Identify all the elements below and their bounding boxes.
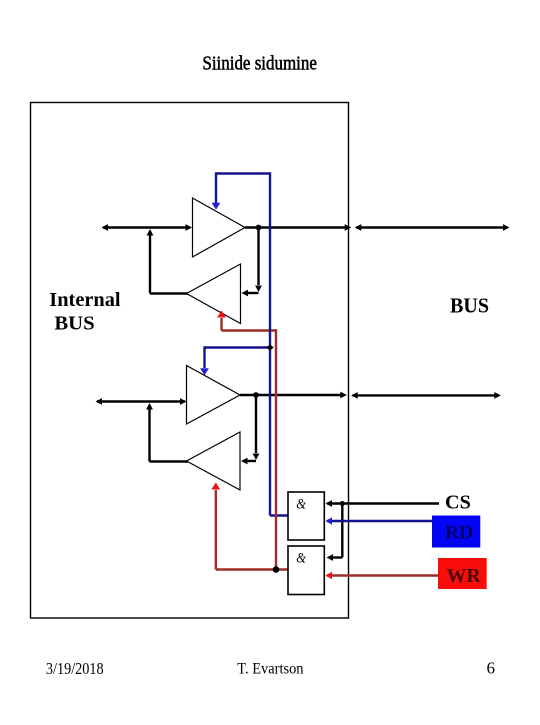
svg-text:RD: RD [445,522,473,543]
svg-text:BUS: BUS [450,293,489,317]
svg-text:BUS: BUS [54,313,94,335]
svg-text:&: & [296,551,306,567]
svg-text:3/19/2018: 3/19/2018 [46,659,104,678]
svg-text:&: & [296,497,306,513]
svg-text:Siinide sidumine: Siinide sidumine [202,53,317,74]
svg-text:6: 6 [487,659,496,678]
svg-text:CS: CS [445,491,471,513]
svg-text:T. Evartson: T. Evartson [237,661,303,678]
svg-text:WR: WR [447,566,482,587]
svg-text:Internal: Internal [49,289,121,311]
